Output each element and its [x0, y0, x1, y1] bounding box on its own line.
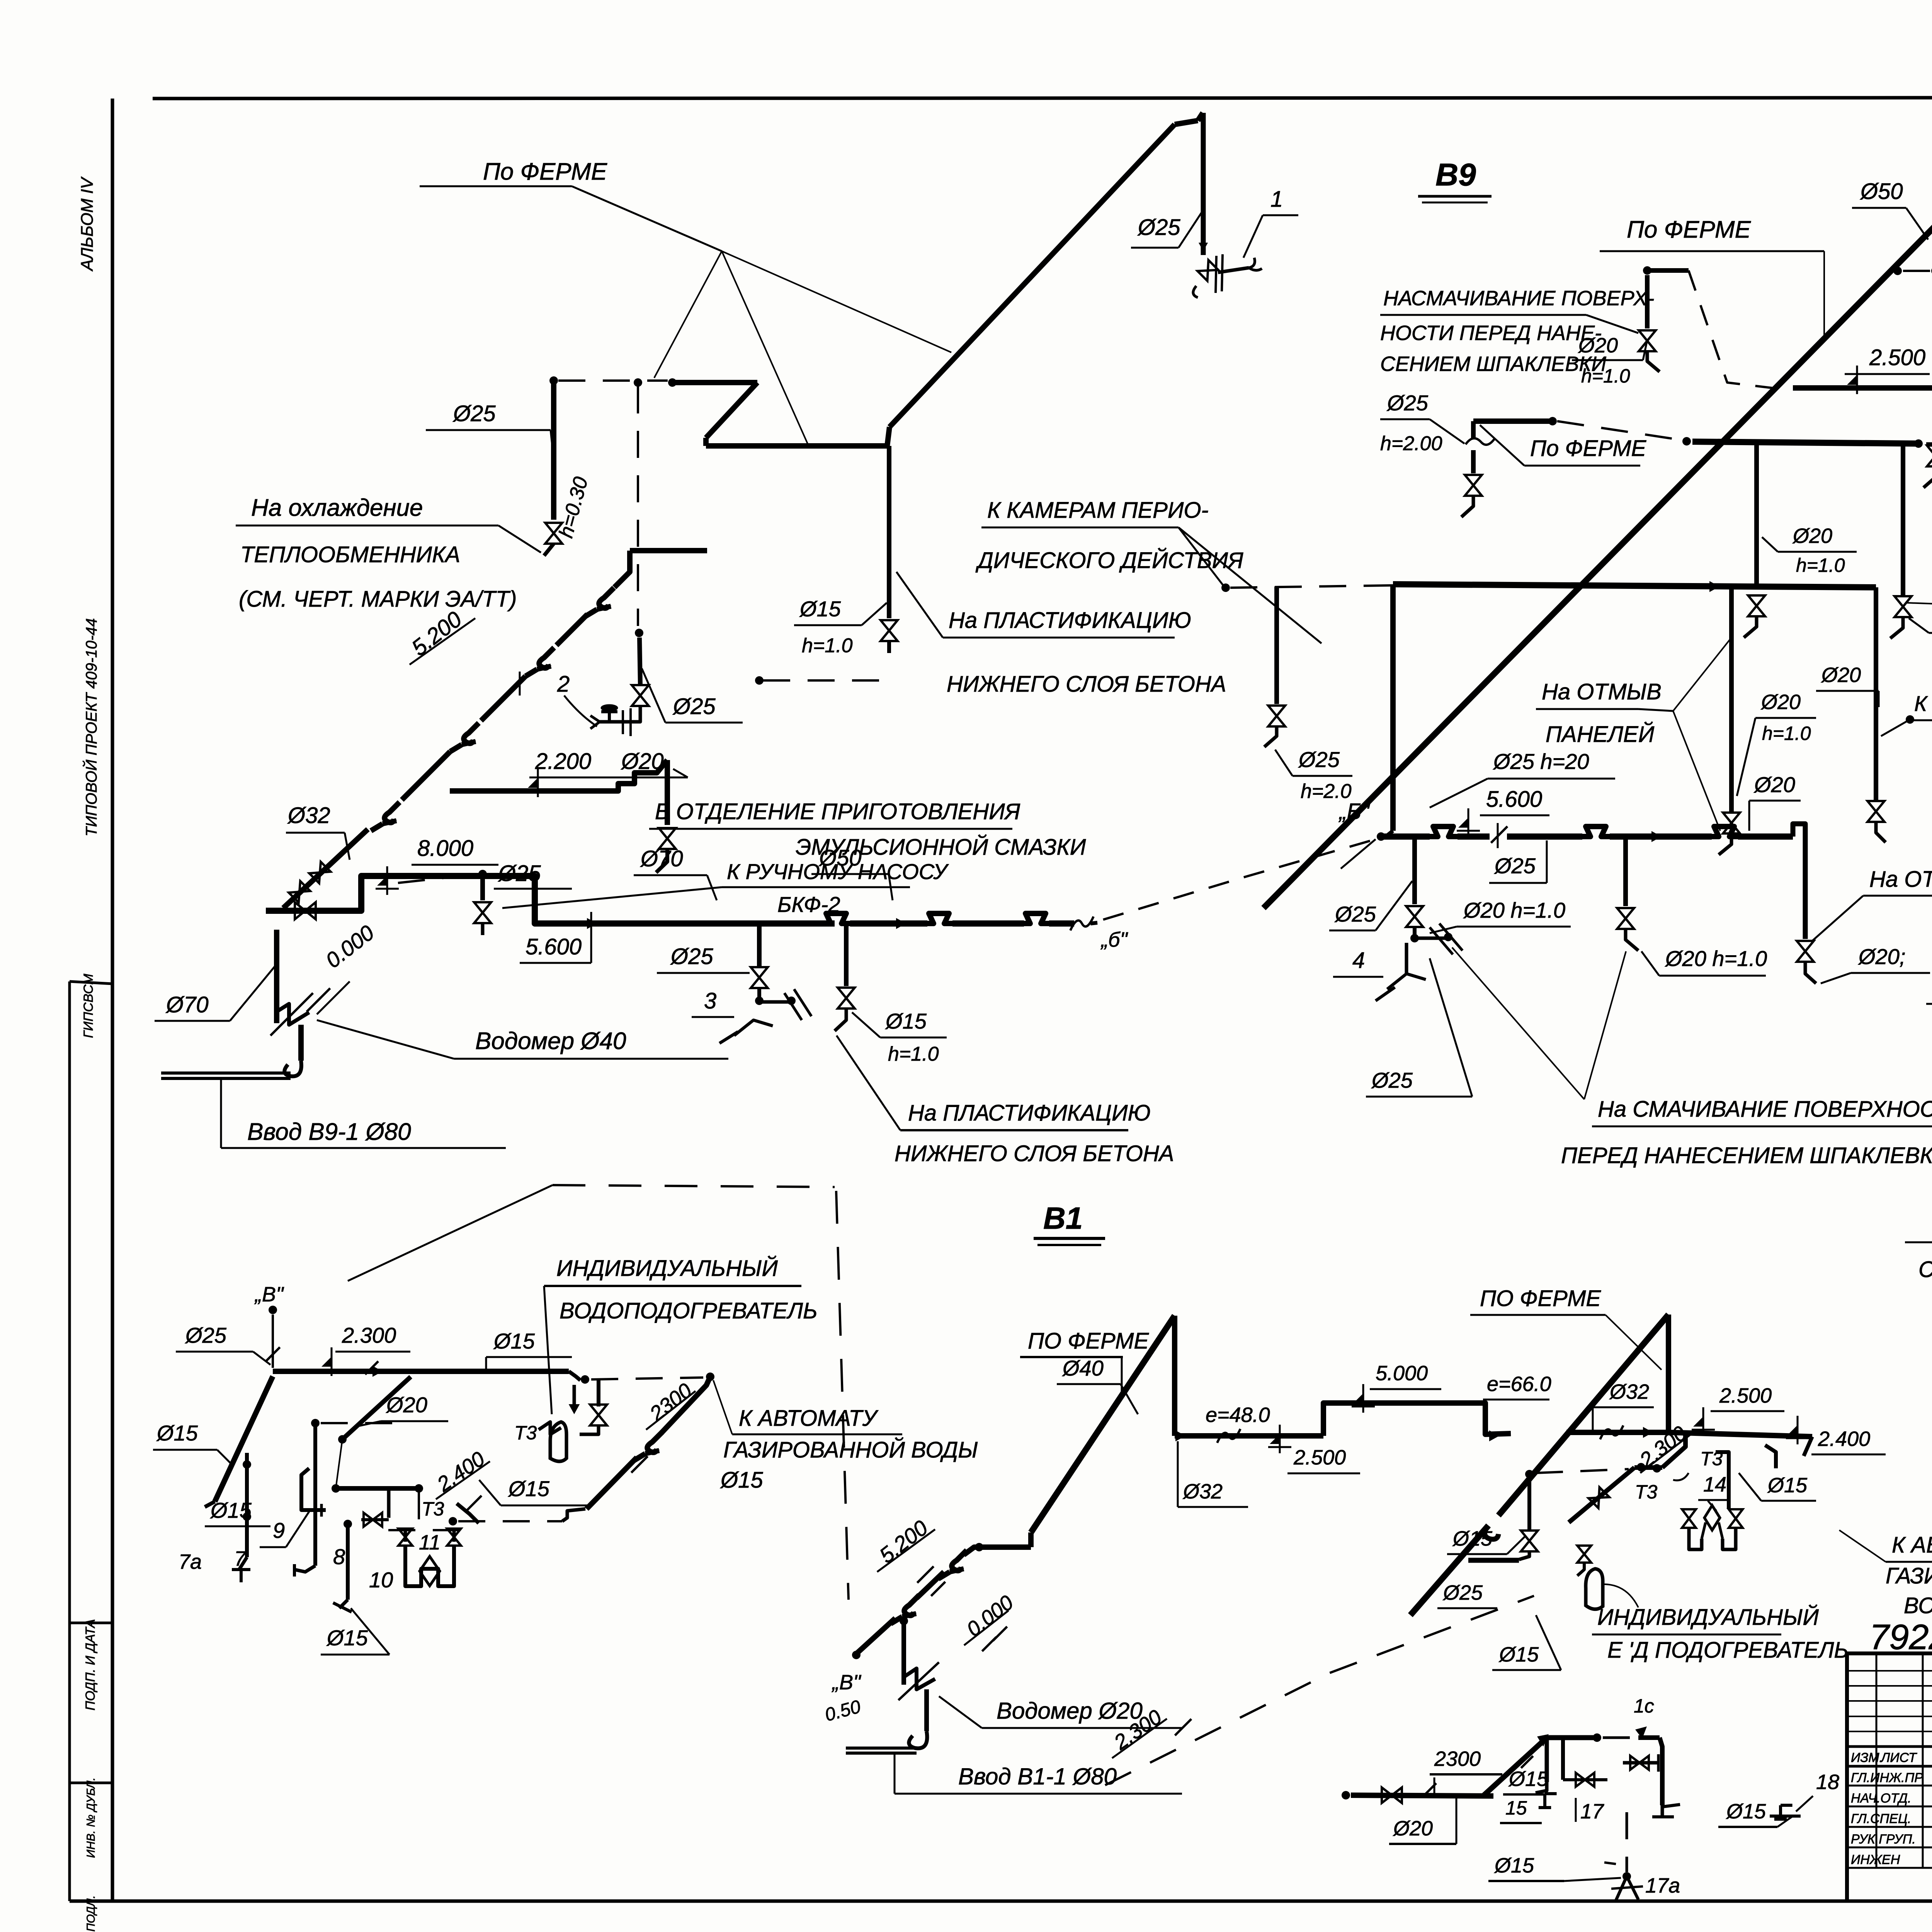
svg-text:7922/8: 7922/8: [1869, 1617, 1932, 1657]
svg-text:Ø20: Ø20: [1578, 334, 1618, 357]
svg-text:Ø15: Ø15: [1452, 1527, 1493, 1550]
svg-text:2.400: 2.400: [1818, 1427, 1870, 1451]
svg-text:18: 18: [1816, 1770, 1839, 1794]
svg-text:Ø25: Ø25: [1371, 1068, 1413, 1092]
svg-text:Ø25: Ø25: [670, 944, 713, 969]
svg-text:Ø25: Ø25: [672, 694, 716, 719]
svg-text:2.500: 2.500: [1293, 1446, 1346, 1469]
svg-text:ЛИСТ: ЛИСТ: [1880, 1750, 1917, 1765]
svg-text:По ФЕРМЕ: По ФЕРМЕ: [483, 158, 607, 185]
svg-text:1: 1: [1270, 187, 1283, 212]
svg-text:Т3: Т3: [514, 1422, 537, 1444]
svg-text:Ø20: Ø20: [1393, 1817, 1433, 1840]
svg-text:ТЕПЛООБМЕННИКА: ТЕПЛООБМЕННИКА: [240, 542, 460, 567]
svg-text:17а: 17а: [1645, 1874, 1680, 1897]
svg-text:Ø15: Ø15: [1726, 1800, 1766, 1823]
svg-text:5.000: 5.000: [1376, 1362, 1428, 1385]
svg-text:h=1.0: h=1.0: [888, 1043, 939, 1065]
svg-text:ИНВ. № ДУБЛ.: ИНВ. № ДУБЛ.: [85, 1777, 97, 1858]
svg-text:Т3: Т3: [422, 1498, 444, 1520]
svg-text:h=2.00: h=2.00: [1380, 432, 1442, 455]
svg-text:В ОТДЕЛЕНИЕ ПРИГОТОВЛЕНИЯ: В ОТДЕЛЕНИЕ ПРИГОТОВЛЕНИЯ: [655, 799, 1020, 824]
svg-text:Ø15: Ø15: [1508, 1767, 1549, 1791]
svg-text:е=48.0: е=48.0: [1206, 1403, 1270, 1427]
svg-text:ИНДИВИДУАЛЬНЫЙ: ИНДИВИДУАЛЬНЫЙ: [556, 1256, 778, 1281]
svg-text:2.500: 2.500: [1719, 1384, 1772, 1407]
svg-text:Ввод В1-1 Ø80: Ввод В1-1 Ø80: [958, 1764, 1117, 1789]
svg-text:РУК.ГРУП.: РУК.ГРУП.: [1851, 1832, 1916, 1847]
svg-text:Водомер Ø20: Водомер Ø20: [997, 1698, 1143, 1724]
svg-text:БКФ-2: БКФ-2: [777, 892, 840, 917]
svg-text:По ФЕРМЕ: По ФЕРМЕ: [1530, 436, 1647, 461]
svg-text:8: 8: [333, 1544, 345, 1569]
svg-text:ГИПСВСМ: ГИПСВСМ: [81, 973, 96, 1038]
svg-text:Ø25: Ø25: [1137, 215, 1180, 240]
svg-text:ЭМУЛЬСИОННОЙ СМАЗКИ: ЭМУЛЬСИОННОЙ СМАЗКИ: [796, 835, 1086, 860]
svg-text:СЕНИЕМ ШПАКЛЕВКИ: СЕНИЕМ ШПАКЛЕВКИ: [1380, 352, 1606, 376]
svg-text:h=1.0: h=1.0: [1796, 554, 1845, 576]
svg-text:ИНЖЕН: ИНЖЕН: [1851, 1852, 1900, 1867]
svg-text:На охлаждение: На охлаждение: [251, 495, 423, 521]
svg-text:h=1.0: h=1.0: [802, 634, 853, 657]
svg-text:НИЖНЕГО СЛОЯ БЕТОНА: НИЖНЕГО СЛОЯ БЕТОНА: [895, 1141, 1174, 1166]
svg-text:5.600: 5.600: [1486, 787, 1542, 812]
svg-text:К РУЧНОМУ НАСОСУ: К РУЧНОМУ НАСОСУ: [727, 859, 949, 884]
svg-text:Ø20: Ø20: [1753, 772, 1795, 797]
svg-text:К АВТОМАТУ: К АВТОМАТУ: [739, 1406, 879, 1431]
svg-text:Ø15: Ø15: [508, 1476, 550, 1501]
svg-text:2.200: 2.200: [535, 749, 591, 774]
svg-text:Ø15: Ø15: [1494, 1854, 1534, 1877]
svg-text:ПАНЕЛЕЙ: ПАНЕЛЕЙ: [1546, 722, 1655, 747]
svg-text:5.600: 5.600: [526, 934, 582, 959]
svg-text:В9: В9: [1435, 157, 1476, 192]
svg-text:ГЛ.ИНЖ.ПР: ГЛ.ИНЖ.ПР: [1851, 1770, 1923, 1785]
svg-text:ГАЗИРОВАННОЙ ВОДЫ: ГАЗИРОВАННОЙ ВОДЫ: [723, 1437, 978, 1463]
svg-text:4: 4: [1352, 948, 1365, 973]
svg-text:ИЗМ.: ИЗМ.: [1851, 1750, 1883, 1765]
svg-text:h=1.0: h=1.0: [1762, 723, 1811, 744]
svg-text:1с: 1с: [1634, 1695, 1654, 1717]
svg-text:Ø15: Ø15: [1498, 1643, 1539, 1666]
svg-text:10: 10: [369, 1568, 393, 1592]
svg-text:h=1.0: h=1.0: [1581, 365, 1630, 387]
svg-text:К АВТОМАТУ: К АВТОМАТУ: [1892, 1532, 1932, 1558]
svg-text:Ø20;: Ø20;: [1858, 944, 1905, 969]
svg-text:На ОТМЫВ ПАНЕЛЕЙ: На ОТМЫВ ПАНЕЛЕЙ: [1869, 867, 1932, 892]
svg-text:2300: 2300: [1434, 1747, 1481, 1770]
svg-text:НИЖНЕГО СЛОЯ БЕТОНА: НИЖНЕГО СЛОЯ БЕТОНА: [947, 672, 1226, 697]
svg-text:Ø25: Ø25: [452, 401, 496, 426]
svg-text:В1: В1: [1043, 1201, 1083, 1235]
svg-text:Ø15: Ø15: [156, 1421, 198, 1445]
svg-text:Ø25: Ø25: [1442, 1581, 1483, 1604]
svg-text:Ø32: Ø32: [1182, 1480, 1223, 1503]
svg-text:По ФЕРМЕ: По ФЕРМЕ: [1627, 216, 1751, 243]
svg-text:(СМ. ЧЕРТ. МАРКИ ЭА/ТТ): (СМ. ЧЕРТ. МАРКИ ЭА/ТТ): [239, 587, 517, 612]
svg-text:9: 9: [273, 1518, 285, 1543]
svg-text:„В": „В": [832, 1671, 862, 1694]
svg-text:14: 14: [1703, 1473, 1726, 1496]
svg-text:7а: 7а: [179, 1550, 202, 1573]
svg-text:Ввод В9-1 Ø80: Ввод В9-1 Ø80: [247, 1119, 411, 1145]
svg-text:Ø20: Ø20: [1821, 663, 1861, 687]
svg-text:На ПЛАСТИФИКАЦИЮ: На ПЛАСТИФИКАЦИЮ: [949, 608, 1191, 633]
svg-text:h=2.0: h=2.0: [1301, 780, 1352, 803]
svg-text:СТЕНОК: СТЕНОК: [1918, 1257, 1932, 1282]
svg-text:Ø70: Ø70: [640, 846, 683, 871]
svg-text:НОСТИ ПЕРЕД НАНЕ-: НОСТИ ПЕРЕД НАНЕ-: [1380, 321, 1602, 345]
svg-text:Ø25 h=20: Ø25 h=20: [1493, 749, 1589, 774]
svg-text:15: 15: [1505, 1797, 1527, 1819]
svg-text:Ø32: Ø32: [287, 803, 330, 828]
svg-text:Ø50: Ø50: [1860, 179, 1903, 204]
svg-text:Ø15: Ø15: [493, 1329, 535, 1353]
svg-text:Е 'Д ПОДОГРЕВАТЕЛЬ: Е 'Д ПОДОГРЕВАТЕЛЬ: [1607, 1638, 1849, 1663]
svg-text:Ø15: Ø15: [326, 1626, 368, 1650]
svg-text:е=66.0: е=66.0: [1487, 1372, 1551, 1396]
svg-text:НАСМАЧИВАНИЕ ПОВЕРХ-: НАСМАЧИВАНИЕ ПОВЕРХ-: [1383, 287, 1654, 310]
svg-text:Ø20 h=1.0: Ø20 h=1.0: [1665, 946, 1767, 971]
svg-text:Ø25: Ø25: [1386, 391, 1429, 415]
svg-text:ПО ФЕРМЕ: ПО ФЕРМЕ: [1480, 1286, 1601, 1311]
svg-text:„б": „б": [1100, 928, 1128, 951]
svg-text:ПОДП. И ДАТА: ПОДП. И ДАТА: [83, 1619, 98, 1711]
svg-text:2.300: 2.300: [342, 1323, 396, 1347]
svg-text:К РУЧНОМУ НАСОСУ: К РУЧНОМУ НАСОСУ: [1914, 691, 1932, 716]
svg-text:Ø25: Ø25: [1298, 747, 1340, 772]
svg-text:Ø15: Ø15: [885, 1009, 927, 1033]
svg-text:АЛЬБОМ IV: АЛЬБОМ IV: [78, 176, 97, 272]
svg-text:Ø40: Ø40: [1062, 1356, 1104, 1380]
svg-text:НАЧ.ОТД.: НАЧ.ОТД.: [1851, 1791, 1911, 1806]
svg-text:ВОДОПОДОГРЕВАТЕЛЬ: ВОДОПОДОГРЕВАТЕЛЬ: [560, 1298, 818, 1323]
svg-text:ИНДИВИДУАЛЬНЫЙ: ИНДИВИДУАЛЬНЫЙ: [1597, 1605, 1819, 1630]
svg-text:17: 17: [1580, 1800, 1604, 1823]
svg-text:На ОТМЫВ: На ОТМЫВ: [1542, 679, 1662, 704]
svg-text:Водомер Ø40: Водомер Ø40: [475, 1028, 626, 1054]
svg-text:Ø25: Ø25: [1334, 902, 1376, 926]
svg-text:Ø20: Ø20: [621, 749, 664, 774]
svg-text:3: 3: [704, 988, 716, 1014]
svg-text:ПО ФЕРМЕ: ПО ФЕРМЕ: [1028, 1328, 1149, 1354]
svg-text:На ПЛАСТИФИКАЦИЮ: На ПЛАСТИФИКАЦИЮ: [908, 1100, 1151, 1126]
svg-text:ГАЗИРОВАННОЙ: ГАЗИРОВАННОЙ: [1886, 1563, 1932, 1588]
svg-text:ИНВ. № ПОДЛ.: ИНВ. № ПОДЛ.: [85, 1895, 97, 1932]
svg-text:2: 2: [557, 672, 570, 697]
svg-text:Ø20: Ø20: [1760, 690, 1801, 714]
svg-text:ГЛ.СПЕЦ.: ГЛ.СПЕЦ.: [1851, 1811, 1911, 1826]
svg-text:Т3: Т3: [1635, 1481, 1658, 1503]
svg-text:7: 7: [234, 1547, 247, 1570]
svg-text:ТИПОВОЙ ПРОЕКТ 409-10-44: ТИПОВОЙ ПРОЕКТ 409-10-44: [82, 618, 100, 837]
svg-text:Ø20 h=1.0: Ø20 h=1.0: [1463, 898, 1565, 922]
svg-text:2.500: 2.500: [1869, 345, 1925, 370]
svg-text:Ø25: Ø25: [185, 1323, 227, 1347]
svg-text:ВОДЫ: ВОДЫ: [1904, 1593, 1932, 1618]
svg-text:ПЕРЕД НАНЕСЕНИЕМ ШПАКЛЕВКИ: ПЕРЕД НАНЕСЕНИЕМ ШПАКЛЕВКИ: [1561, 1143, 1932, 1168]
svg-text:Ø32: Ø32: [1609, 1380, 1649, 1403]
svg-text:К КАМЕРАМ ПЕРИО-: К КАМЕРАМ ПЕРИО-: [987, 498, 1209, 523]
svg-text:Ø15: Ø15: [210, 1498, 252, 1522]
svg-text:Ø15: Ø15: [1767, 1474, 1808, 1497]
svg-text:Ø20: Ø20: [1792, 524, 1832, 548]
svg-text:Ø20: Ø20: [386, 1393, 427, 1417]
svg-text:„В": „В": [254, 1283, 284, 1306]
svg-text:Ø15: Ø15: [720, 1468, 763, 1493]
svg-text:Ø15: Ø15: [799, 597, 841, 621]
svg-text:На СМАЧИВАНИЕ ПОВЕРХНОСТИ: На СМАЧИВАНИЕ ПОВЕРХНОСТИ: [1598, 1097, 1932, 1122]
svg-text:11: 11: [419, 1531, 440, 1554]
svg-text:Ø70: Ø70: [165, 992, 209, 1017]
svg-text:Ø25: Ø25: [1494, 854, 1536, 878]
svg-text:8.000: 8.000: [417, 836, 473, 861]
